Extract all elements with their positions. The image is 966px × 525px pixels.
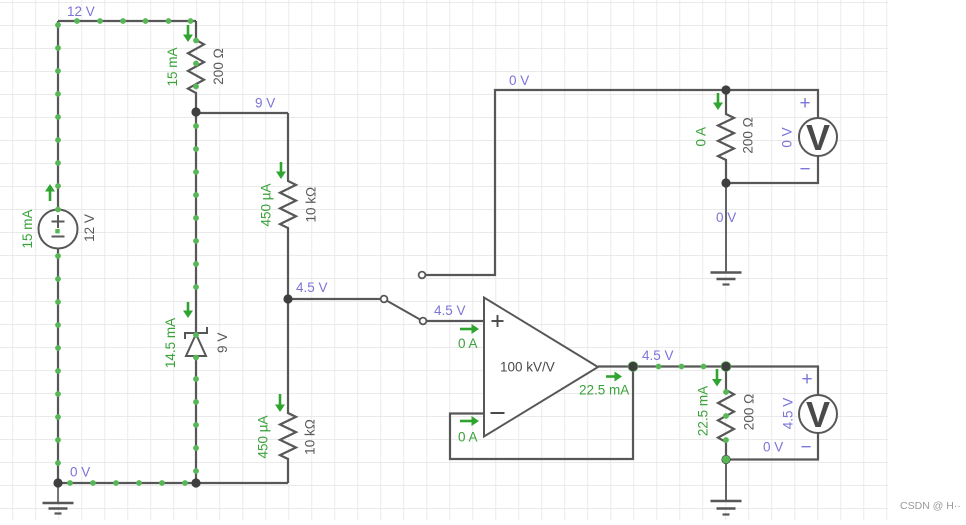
current arrow R1 down [187,25,190,37]
wire bottom rail 0V [58,482,288,484]
svg-text:0 V: 0 V [70,465,90,480]
svg-text:CSDN @ H··: CSDN @ H·· [900,500,961,512]
svg-text:450 µA: 450 µA [259,183,274,226]
wire op-amp output [598,365,726,367]
wire R5 to voltmeter top [726,367,818,396]
svg-text:0 V: 0 V [763,440,783,455]
resistor R2 10k upper [280,113,296,299]
current flow dots left loop [74,18,80,24]
svg-text:0 A: 0 A [458,336,478,351]
svg-text:0 A: 0 A [694,127,709,147]
svg-text:0 A: 0 A [458,430,478,445]
switch SW1 common terminal [381,296,388,303]
resistor R1 200 ohm top [188,21,204,112]
switch SW1 lower throw terminal [420,318,427,325]
ground lower right [725,460,727,502]
op-amp U1 [484,298,598,437]
resistor R3 10k lower [280,299,296,483]
svg-text:V: V [806,394,830,435]
wire top rail 12V [58,20,196,22]
zener diode D1 symbol [185,327,207,339]
svg-text:10 kΩ: 10 kΩ [304,187,319,223]
svg-text:200 Ω: 200 Ω [742,394,757,430]
svg-text:22.5 mA: 22.5 mA [579,383,629,398]
wire node to ground lower right [725,460,727,502]
wire node to switch common [288,298,381,300]
svg-text:9 V: 9 V [255,96,275,111]
svg-text:+: + [799,93,810,114]
current arrow R3 down [279,394,282,407]
current arrow D1 down [187,302,190,313]
svg-text:200 Ω: 200 Ω [741,117,756,153]
current arrow R4 down [717,93,720,105]
current arrow + input [460,328,474,331]
node junction dots [628,361,639,372]
svg-text:22.5 mA: 22.5 mA [696,386,711,436]
svg-text:100 kV/V: 100 kV/V [500,360,555,375]
svg-text:−: − [799,159,810,180]
current arrow R2 down [280,162,283,174]
wire R5 to voltmeter bottom [726,433,818,460]
svg-text:15 mA: 15 mA [20,209,35,248]
svg-text:200 Ω: 200 Ω [211,48,226,84]
wire lower throw to op-amp + input [427,320,485,322]
resistor R4 200 ohm upper right [718,90,734,183]
svg-text:14.5 mA: 14.5 mA [163,318,178,368]
svg-text:4.5 V: 4.5 V [781,398,796,430]
svg-text:12 V: 12 V [82,214,97,242]
svg-text:10 kΩ: 10 kΩ [303,419,318,455]
current flow dots output branch [656,364,662,370]
resistor R5 200 ohm lower right [718,367,734,460]
voltmeter VM1 [799,118,837,156]
switch SW1 upper throw terminal [419,272,426,279]
svg-text:9 V: 9 V [215,333,230,353]
svg-text:−: − [800,437,811,458]
svg-text:450 µA: 450 µA [256,415,271,458]
svg-text:0 V: 0 V [509,73,529,88]
wire R4 to voltmeter top [726,90,818,118]
wire feedback minus input [450,367,633,460]
zener diode D1 branch wire [195,112,197,333]
current arrow output [606,375,617,378]
current arrow R5 down [716,369,719,381]
current arrow - input [460,420,474,423]
wire upper throw to 0V net [426,90,727,275]
current flow dots R1/zener branch [193,38,199,44]
wire left rail [57,21,59,210]
voltage source V1 12V [39,210,78,249]
ground bottom left [57,483,59,503]
svg-text:4.5 V: 4.5 V [642,348,674,363]
wire R4 to voltmeter bottom [726,156,818,183]
switch SW1 blade [387,301,421,320]
svg-text:V: V [806,117,830,158]
svg-text:15 mA: 15 mA [165,47,180,86]
svg-text:4.5 V: 4.5 V [296,280,328,295]
ground upper right [725,183,727,273]
current arrow V1 up [49,190,52,202]
svg-text:4.5 V: 4.5 V [434,303,466,318]
wire node to ground upper right [725,183,727,272]
svg-text:12 V: 12 V [67,4,95,19]
wire 9V rail [196,112,288,114]
svg-text:+: + [801,369,812,390]
voltmeter VM2 [799,395,837,433]
svg-text:0 V: 0 V [780,127,795,147]
